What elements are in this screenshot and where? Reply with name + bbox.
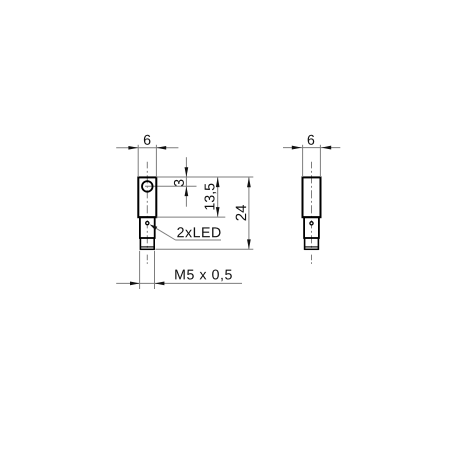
top edge extension line bbox=[157, 176, 254, 178]
centerline left view vertical bbox=[146, 162, 148, 264]
sensor body front view upper housing bbox=[138, 177, 156, 217]
dimension 24 bbox=[156, 177, 254, 249]
sensing face circle front view bbox=[142, 181, 153, 192]
dimension 13,5 bbox=[156, 177, 225, 217]
threaded section side view bbox=[304, 238, 318, 250]
mid section front view bbox=[140, 217, 155, 238]
mid section side view bbox=[304, 217, 319, 238]
centerline left view horizontal through circle bbox=[145, 185, 197, 187]
dimension 6 right view bbox=[283, 135, 340, 177]
LED dot front view bbox=[146, 222, 149, 225]
dimension 3 bbox=[174, 157, 188, 207]
dimension 6 left view bbox=[116, 135, 178, 177]
centerline right view vertical bbox=[311, 162, 313, 264]
leader 2xLED bbox=[150, 224, 221, 240]
LED dot side view bbox=[310, 222, 313, 225]
dimension M5 x 0,5 bbox=[116, 251, 242, 289]
sensor body side view upper housing bbox=[303, 177, 321, 217]
threaded section front view bbox=[140, 238, 154, 250]
